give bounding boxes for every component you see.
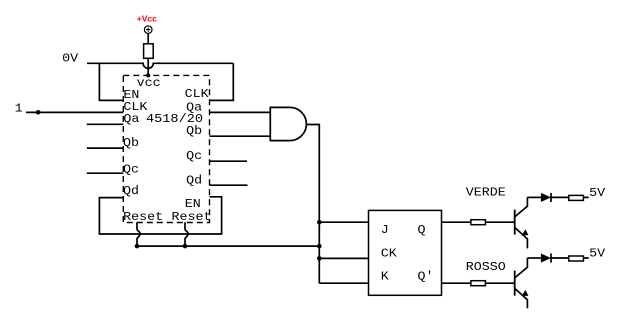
wire reset hop left (137, 222, 140, 246)
wire Q to base resistor (442, 221, 471, 223)
junction dot input 1 (36, 110, 41, 115)
svg-text:Qd: Qd (186, 173, 202, 187)
svg-text:Qb: Qb (123, 136, 139, 150)
wire resistor to Q1 base (485, 221, 514, 223)
wire 0V to EN left pin (99, 63, 123, 100)
svg-text:5V: 5V (589, 186, 606, 200)
transistor Q2 (515, 258, 529, 308)
resistor R5 (569, 256, 584, 261)
counter U1 4518/20 dashed box (123, 75, 209, 222)
svg-text:K: K (381, 270, 390, 284)
svg-text:vcc: vcc (137, 76, 161, 90)
wire reset hop right (185, 222, 188, 246)
wire Q1 collector to diode D1 (527, 196, 541, 198)
svg-text:VERDE: VERDE (466, 186, 506, 200)
wire stub Qd right (210, 184, 248, 186)
resistor R1 (144, 44, 154, 59)
junction dot reset join (317, 244, 322, 249)
wire to CK (319, 257, 368, 259)
svg-text:Q: Q (418, 223, 426, 237)
junction dot vcc pin (146, 74, 150, 78)
resistor R3 (471, 281, 486, 286)
resistor R4 (569, 195, 584, 200)
wire Qa right to AND input (210, 111, 271, 113)
wire resistor to vcc pin (147, 58, 149, 75)
wire reset bus to flip-flop column (137, 245, 319, 247)
svg-text:ROSSO: ROSSO (466, 260, 506, 274)
wire to K (319, 282, 368, 284)
svg-text:Qd: Qd (123, 184, 139, 198)
wire resistor R5 to 5V (583, 257, 588, 259)
wire 0V to CLK right pin (210, 63, 234, 100)
wire diode to resistor R5 (551, 257, 569, 259)
svg-text:1: 1 (15, 101, 23, 115)
svg-text:Q': Q' (418, 270, 434, 284)
wire resistor to Q2 base (485, 282, 514, 284)
wire Q2 collector to diode D2 (527, 257, 541, 259)
wire Qb right to AND input (210, 135, 271, 137)
wire stub Qb left (87, 147, 124, 149)
wire input 1 to CLK left (26, 111, 123, 113)
power supply terminal circle (144, 26, 152, 34)
wire AND output (306, 125, 319, 284)
diode D1 (541, 193, 551, 202)
svg-text:Qc: Qc (186, 149, 202, 163)
diode D2 (541, 254, 551, 263)
wire stub Qc right (210, 160, 248, 162)
wire stub Qc left (87, 172, 124, 174)
junction dot reset left (135, 244, 140, 249)
junction dot CK (317, 256, 322, 261)
svg-text:Qa: Qa (123, 112, 139, 126)
svg-text:CLK: CLK (185, 87, 210, 101)
wire Q' to base resistor (442, 282, 471, 284)
transistor Q1 (515, 197, 529, 248)
wire resistor R4 to 5V (583, 196, 588, 198)
wire Qd left to reset loop (99, 197, 221, 234)
wire to J (319, 221, 368, 223)
svg-text:0V: 0V (62, 52, 79, 66)
flip-flop U3 box (369, 210, 442, 295)
wire diode to resistor R4 (551, 196, 569, 198)
wire stub Qa left (87, 123, 124, 125)
svg-text:Reset: Reset (172, 210, 212, 224)
junction dot reset right (183, 244, 188, 249)
svg-text:Reset: Reset (123, 210, 163, 224)
svg-text:5V: 5V (589, 247, 606, 261)
svg-text:Qb: Qb (186, 124, 202, 138)
resistor R2 (471, 220, 486, 225)
wire circle to resistor (147, 33, 149, 43)
svg-text:CK: CK (381, 247, 398, 261)
wire 0V rail with hop under vcc stem (87, 63, 233, 68)
svg-text:+Vcc: +Vcc (137, 13, 157, 23)
svg-text:Qc: Qc (123, 162, 139, 176)
svg-text:EN: EN (185, 197, 201, 211)
svg-text:Qa: Qa (186, 101, 202, 115)
AND gate U2 (270, 107, 306, 140)
svg-text:J: J (381, 223, 389, 237)
junction dot J (317, 220, 322, 225)
